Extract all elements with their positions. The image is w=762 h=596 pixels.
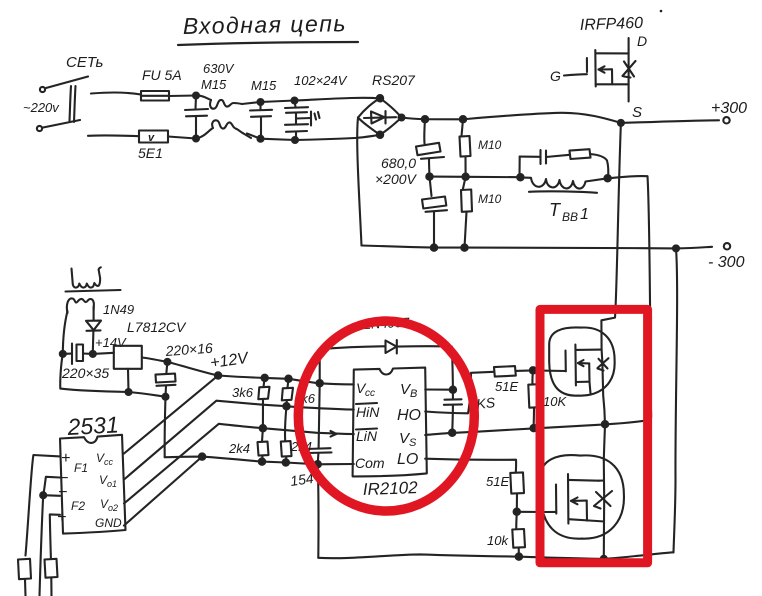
wire mains bottom to varistor <box>88 134 139 137</box>
node F join <box>40 492 46 498</box>
wire 2531 +F1 lead <box>26 455 61 556</box>
node com c <box>283 459 289 465</box>
node VB <box>450 387 456 393</box>
wire TBB1 right to VS drop <box>608 176 651 420</box>
node TBB1 right <box>604 175 610 181</box>
terminal +300 <box>711 100 747 124</box>
node aux1 <box>60 351 66 357</box>
wire COM down to power gnd rail <box>317 464 320 558</box>
resistor R5 3k6 <box>232 378 270 428</box>
node reg gnd <box>126 389 132 395</box>
node +12v a <box>215 372 221 378</box>
wire gate low <box>517 511 546 513</box>
switch S1 (mains double-pole) <box>37 77 88 132</box>
choke L1 top winding <box>210 100 242 109</box>
snubber resistor (TBB1) <box>570 149 609 178</box>
resistor R9 51E (high side gate) <box>494 366 518 394</box>
svg-text:1: 1 <box>580 206 589 223</box>
wire -300 rail <box>362 246 713 249</box>
wire diode to VB node <box>452 347 453 390</box>
svg-text:IR2102: IR2102 <box>362 478 418 499</box>
node rail n1 <box>422 116 428 122</box>
resistor R3 (F1 LED) <box>18 559 31 596</box>
resistor R4 (F2 LED) <box>45 559 58 596</box>
svg-text:10K: 10K <box>543 394 567 409</box>
svg-text:~220v: ~220v <box>23 100 60 115</box>
svg-text:v: v <box>148 132 155 144</box>
node aux2 (+14V) <box>90 351 96 357</box>
capacitor C10 bootstrap <box>444 390 462 433</box>
node c8 top <box>164 359 170 365</box>
regulator U2 L7812CV <box>93 319 187 392</box>
svg-text:- 300: - 300 <box>708 254 745 271</box>
resistor R6 2k4 <box>228 428 269 461</box>
transistor Q2 IRFP460 (low side) <box>541 455 624 539</box>
svg-text:L7812CV: L7812CV <box>127 319 187 335</box>
node VS a <box>449 430 455 436</box>
wire gate lead Q1 <box>564 370 567 372</box>
svg-text:630V: 630V <box>203 61 235 76</box>
capacitor C2 M15 <box>250 78 277 139</box>
diode VD2 1N4937 (bootstrap) <box>320 315 452 384</box>
node +12v c <box>285 376 291 382</box>
wire gate high <box>533 369 565 372</box>
svg-text:M15: M15 <box>251 78 277 93</box>
node bot2 <box>258 136 264 142</box>
op-amp / driver U1 IR2102 <box>353 368 427 499</box>
svg-text:LiN: LiN <box>356 428 378 444</box>
svg-text:M10: M10 <box>478 138 502 152</box>
node com d <box>315 461 321 467</box>
node top1 <box>193 93 199 99</box>
resistor R11 51E (low side gate) <box>486 472 524 493</box>
node com b <box>259 458 265 464</box>
bridge rectifier RS207 <box>358 72 416 135</box>
wire -300 drop to rail <box>674 248 678 552</box>
wire varistor to bottom nodes <box>168 137 196 139</box>
title: Входная цепь <box>178 10 358 45</box>
transistor Q1 IRFP460 (high side) <box>549 327 614 395</box>
node bridge top <box>377 95 383 101</box>
node c8 bottom <box>163 394 169 400</box>
wire VS drop to lower drain <box>604 424 605 460</box>
svg-text:S: S <box>409 437 417 449</box>
svg-text:5E1: 5E1 <box>138 145 163 161</box>
wire LO pin to gate resistor <box>425 459 516 473</box>
wire VS line <box>425 420 651 435</box>
wire node to choke <box>196 95 211 100</box>
svg-text:+: + <box>57 509 66 526</box>
wire 51E to gate node low <box>516 494 518 512</box>
node +12v d <box>317 380 323 386</box>
svg-text:cc: cc <box>104 457 114 467</box>
wire choke to node2 <box>242 102 260 104</box>
stray mark <box>660 10 663 13</box>
node com a <box>199 453 205 459</box>
svg-text:B: B <box>410 388 417 400</box>
wire 2531 Vo2 diagonal to LIN <box>124 424 354 504</box>
wire 2531 Vcc diagonal <box>124 376 218 454</box>
node bot3 <box>292 137 298 143</box>
node VS b <box>531 425 537 431</box>
svg-text:T: T <box>549 200 562 220</box>
svg-text:IRFP460: IRFP460 <box>580 15 644 34</box>
wire 2531 Vo1 diagonal to HIN <box>124 401 354 480</box>
inductor TBB1 <box>520 177 607 224</box>
svg-text:51E: 51E <box>495 379 518 394</box>
wire to node bot2 <box>247 134 261 139</box>
node rail n2 <box>460 116 466 122</box>
wire node2 to node3 <box>261 101 295 103</box>
svg-text:+300: +300 <box>711 100 747 117</box>
svg-text:3k6: 3k6 <box>232 385 254 400</box>
svg-text:−: − <box>58 484 67 501</box>
node bridge right <box>399 115 405 121</box>
svg-text:1N49: 1N49 <box>103 302 134 317</box>
wire drain Q1 (to +300) <box>601 123 621 350</box>
capacitor C5 6800x200V upper <box>375 119 444 187</box>
svg-text:o2: o2 <box>108 503 118 513</box>
node mid n2 <box>462 174 468 180</box>
wire gate lead Q2 <box>546 511 556 513</box>
wire 220x16 bottom down to COM <box>164 397 167 458</box>
svg-text:220×16: 220×16 <box>164 340 213 359</box>
wire bot3 to bridge bottom <box>295 135 380 140</box>
wire bridge left down to -300 rail <box>357 118 361 246</box>
red annotation rectangle around MOSFETs <box>540 309 648 562</box>
wire +12V line <box>167 362 353 385</box>
node bridge bottom <box>377 132 383 138</box>
svg-text:F2: F2 <box>71 499 85 513</box>
svg-text:HiN: HiN <box>356 404 380 420</box>
svg-text:M15: M15 <box>201 77 227 92</box>
svg-text:Входная цепь: Входная цепь <box>183 10 348 39</box>
wire gnd rail aux <box>60 354 165 397</box>
capacitor C1 M15 630V <box>185 61 235 139</box>
wire 2531 +F2 lead <box>50 514 60 558</box>
node -300 n2 <box>461 244 467 250</box>
node rail low-gate <box>516 553 522 559</box>
svg-text:×200V: ×200V <box>375 171 418 187</box>
wire node3 to bridge top <box>295 98 380 101</box>
svg-text:o1: o1 <box>107 479 117 489</box>
svg-text:F1: F1 <box>74 461 88 475</box>
svg-text:S: S <box>632 104 642 121</box>
svg-text:51E: 51E <box>486 474 509 489</box>
svg-text:FU 5A: FU 5A <box>142 67 182 83</box>
terminal -300 <box>708 243 745 271</box>
resistor R2 M10 lower <box>461 177 502 248</box>
winding symbol (transformer secondary, top) <box>66 267 121 291</box>
svg-text:+: + <box>61 450 70 467</box>
node top3 <box>292 98 298 104</box>
wire VB pin <box>425 388 453 390</box>
wire fuse to node <box>169 94 196 97</box>
wire 2531 -F1 lead <box>43 477 60 495</box>
svg-text:BB: BB <box>562 210 578 224</box>
wire COM line to IC <box>165 457 354 465</box>
resistor R8 2k4 <box>281 406 312 462</box>
chassis ground stub at C3/C4 midpoint <box>296 112 320 126</box>
svg-text:LO: LO <box>397 451 418 468</box>
node +12v b <box>262 375 268 381</box>
svg-text:2k4: 2k4 <box>228 441 250 456</box>
capacitor C7 220x35 <box>61 344 109 382</box>
resistor R10 10K (high side) <box>528 370 567 424</box>
resistor R7 3k6 <box>282 379 316 406</box>
node HIN jn2 <box>283 403 289 409</box>
svg-text:102×24V: 102×24V <box>294 73 348 88</box>
svg-text:220×35: 220×35 <box>61 365 109 381</box>
wire HO pin to gate resistor <box>425 372 494 414</box>
node gate low <box>514 509 520 515</box>
capacitor C6 6800x200V lower <box>422 177 447 248</box>
svg-text:G: G <box>550 68 561 84</box>
wire mains top to fuse <box>91 93 141 95</box>
wire drain-source vertical Q1 <box>602 350 605 425</box>
capacitors C3 C4 102x24V <box>285 73 348 140</box>
wire node bot2 to bot3 <box>261 139 296 140</box>
svg-text:cc: cc <box>365 388 375 399</box>
svg-text:RS207: RS207 <box>372 72 416 88</box>
red annotation ellipse around IR2102 <box>298 321 474 511</box>
svg-text:+14V: +14V <box>95 335 127 350</box>
diode VD1 1N49 <box>86 302 134 353</box>
wire 2531 -F2 lead <box>43 494 60 497</box>
node cap mid <box>426 173 432 179</box>
svg-text:+12V: +12V <box>209 350 250 372</box>
node gate high <box>530 367 536 373</box>
node TBB1 left <box>517 174 523 180</box>
choke L1 bottom winding <box>196 120 251 138</box>
wire source Q1 <box>590 382 591 395</box>
wire drain-source vertical Q2 <box>603 461 606 522</box>
capacitor C9 154 (decoupling) <box>289 383 331 489</box>
svg-text:D: D <box>637 33 647 49</box>
arrow mark on LIN wire <box>331 431 337 437</box>
snubber capacitor (TBB1) <box>520 150 570 177</box>
resistor R12 10k (low side) <box>487 512 525 557</box>
node top2 <box>258 99 264 105</box>
opto-IC U3 2531 <box>57 411 126 533</box>
wire 51E to gate node <box>516 369 534 372</box>
capacitor C8 220x16 <box>156 340 214 397</box>
wire midline caps to TBB1 <box>430 176 521 179</box>
resistor R1 M10 upper <box>460 119 502 177</box>
svg-text:HO: HO <box>397 407 421 424</box>
node -300 n1 <box>431 244 437 250</box>
svg-text:GND: GND <box>95 516 122 530</box>
node rail Q2 source <box>601 556 607 562</box>
svg-text:680,0: 680,0 <box>381 155 416 171</box>
wire F join down <box>40 495 44 596</box>
varistor RU1 5E1 <box>138 131 168 162</box>
node -300 n3 <box>673 245 679 251</box>
svg-text:M10: M10 <box>478 192 502 206</box>
fuse FU 5A <box>141 67 182 101</box>
wire power gnd rail <box>318 552 673 559</box>
wire 2531 GND diagonal <box>124 457 202 526</box>
svg-text:СЕТь: СЕТь <box>66 54 104 71</box>
transistor reference IRFP460 <box>550 15 647 121</box>
node HIN jn1 (LIN junction) <box>260 425 266 431</box>
node bot1 <box>193 136 199 142</box>
winding W1 (aux supply) <box>67 298 94 313</box>
node rail n3 (drain branch) <box>618 120 624 126</box>
wire source Q2 to rail <box>597 521 604 559</box>
wire +300 rail <box>402 113 720 123</box>
svg-text:10k: 10k <box>487 533 509 548</box>
node VS c <box>602 421 608 427</box>
svg-text:Com: Com <box>355 455 385 471</box>
wire winding left to gnd <box>63 311 68 354</box>
